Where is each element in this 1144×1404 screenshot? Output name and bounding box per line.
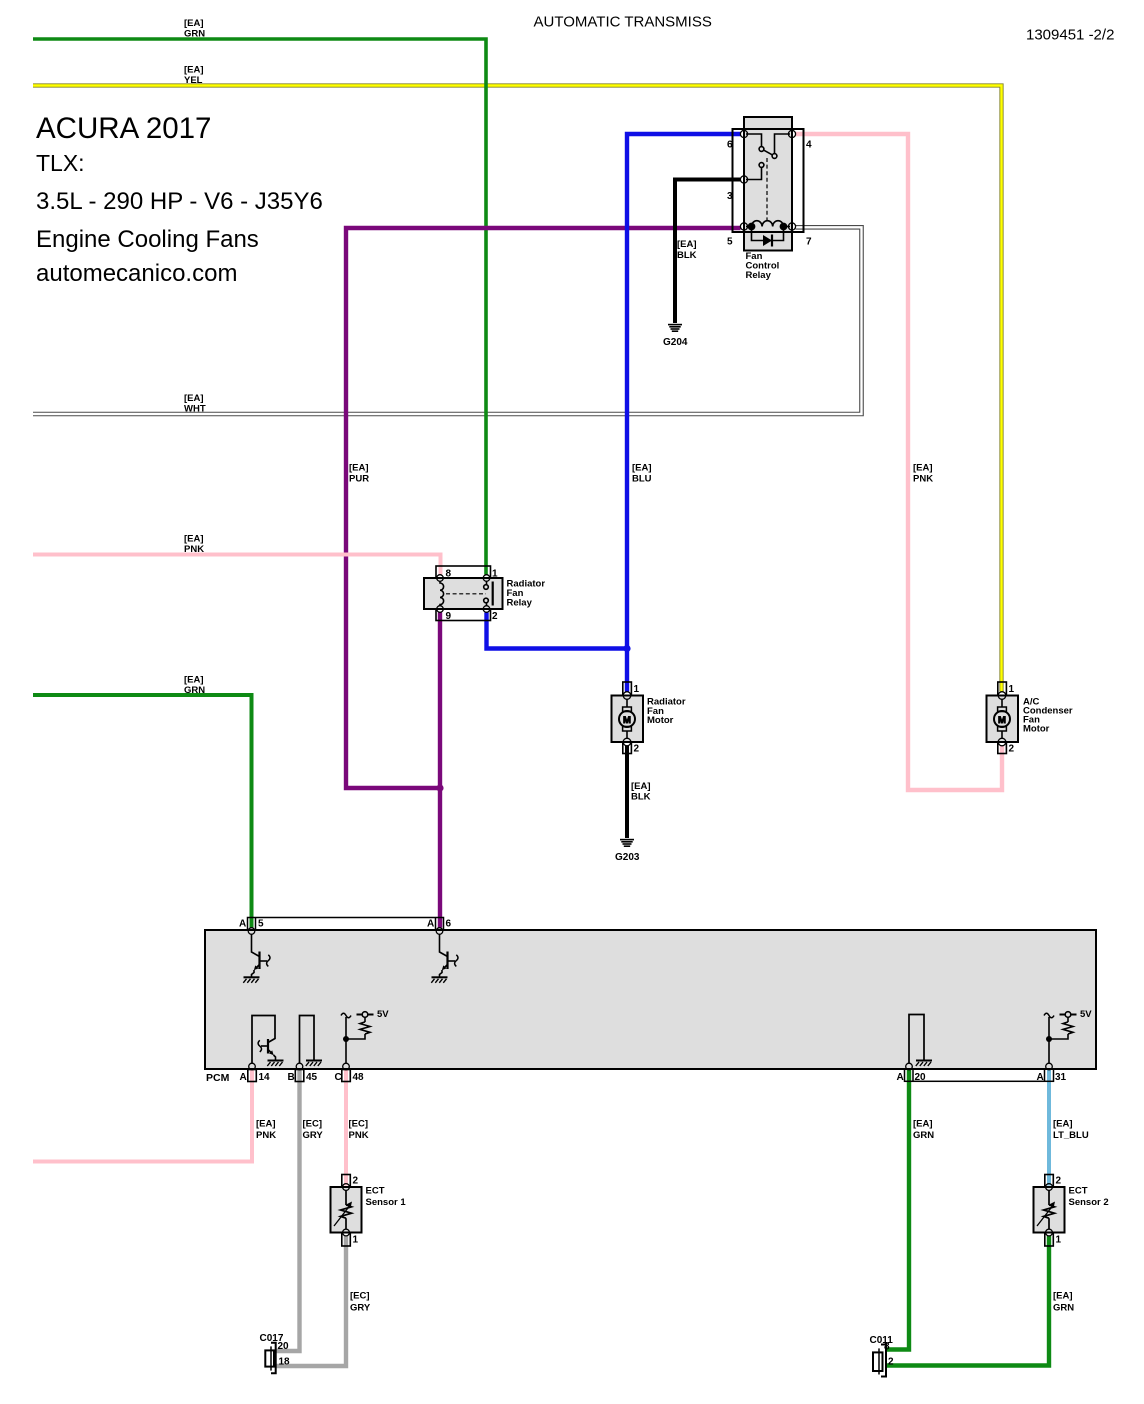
PCM pin B45 circle	[296, 1063, 303, 1070]
svg-text:A: A	[1037, 1072, 1044, 1083]
svg-text:[EC]: [EC]	[350, 1291, 370, 1302]
svg-text:[EA]: [EA]	[631, 781, 651, 792]
radiator fan relay top connector strip	[436, 566, 491, 578]
svg-text:ECT: ECT	[1069, 1186, 1088, 1197]
ground G204	[668, 325, 682, 332]
PCM pin A6 circle	[436, 928, 443, 935]
svg-text:[EA]: [EA]	[1053, 1119, 1073, 1130]
svg-text:1: 1	[1009, 684, 1015, 695]
wire [EA] BLK fan control relay pin 3 to ground G204	[675, 180, 741, 324]
A/C condenser fan motor pin 1 connector	[998, 682, 1007, 696]
svg-text:BLK: BLK	[677, 250, 697, 261]
svg-text:1: 1	[492, 569, 498, 580]
svg-text:[EA]: [EA]	[184, 65, 204, 76]
svg-text:[EA]: [EA]	[913, 1119, 933, 1130]
svg-text:5: 5	[258, 919, 264, 930]
svg-text:automecanico.com: automecanico.com	[36, 260, 237, 287]
ECT sensor 1 pin 2 connector	[342, 1175, 351, 1188]
svg-text:3: 3	[727, 191, 733, 202]
svg-text:[EA]: [EA]	[184, 534, 204, 545]
svg-text:1309451 -2/2: 1309451 -2/2	[1026, 27, 1114, 44]
BOXES	[205, 117, 1096, 1377]
PCM pin C48 connector	[342, 1070, 351, 1082]
wire [EA] GRN middle-left to PCM pin A5	[33, 695, 252, 928]
transistor at PCM pin A5	[243, 934, 270, 983]
PCM bottom connector strip pins A20 A31	[905, 1069, 1054, 1081]
radiator fan relay dashed link	[446, 593, 486, 595]
PCM pin A31 circle	[1046, 1063, 1053, 1070]
svg-text:ECT: ECT	[366, 1186, 385, 1197]
svg-text:PUR: PUR	[349, 474, 369, 485]
wire [EA] PNK from PCM pin A14 to left edge	[33, 1070, 252, 1162]
svg-text:PNK: PNK	[184, 544, 204, 555]
svg-text:PNK: PNK	[349, 1130, 369, 1141]
svg-text:7: 7	[806, 237, 812, 248]
svg-text:PCM: PCM	[206, 1072, 230, 1084]
svg-text:[EC]: [EC]	[349, 1119, 369, 1130]
svg-text:[EA]: [EA]	[632, 463, 652, 474]
PCM pin C48 circle	[343, 1063, 350, 1070]
svg-text:BLU: BLU	[632, 474, 652, 485]
ground G203	[620, 840, 634, 847]
wire [EC] PNK from PCM pin C48 to ECT sensor 1 pin 2	[344, 1070, 348, 1186]
svg-text:Relay: Relay	[507, 598, 533, 609]
svg-text:20: 20	[278, 1341, 290, 1352]
A/C condenser fan motor pin 2 connector	[998, 742, 1007, 754]
svg-text:[EA]: [EA]	[256, 1119, 276, 1130]
svg-text:Motor: Motor	[1023, 724, 1050, 735]
connector C017	[265, 1343, 275, 1374]
internal ground at PCM pin B45	[300, 1016, 323, 1067]
wire [EC] GRY from ECT sensor 1 pin 1 to connector C017 pin 18	[276, 1236, 346, 1366]
svg-text:A: A	[427, 919, 434, 930]
ECT sensor 1 pin 1 connector	[342, 1233, 351, 1247]
svg-text:48: 48	[353, 1072, 365, 1083]
svg-text:GRY: GRY	[350, 1302, 371, 1313]
ECT sensor 2 pin 1 connector	[1045, 1233, 1054, 1247]
wire [EA] YEL horizontal+vertical to A/C condenser fan motor pin 1	[33, 86, 1002, 692]
svg-text:Sensor 1: Sensor 1	[366, 1197, 407, 1208]
svg-text:M: M	[998, 715, 1006, 726]
wire [EA] WHT from fan control relay pin 7	[33, 227, 862, 414]
radiator fan motor body	[612, 696, 644, 743]
radiator fan motor symbol	[619, 692, 635, 746]
radiator fan motor pin 1 connector	[623, 682, 632, 696]
svg-text:PNK: PNK	[913, 474, 933, 485]
fan control relay coil	[746, 221, 790, 230]
svg-text:[EA]: [EA]	[184, 675, 204, 686]
svg-text:6: 6	[446, 919, 452, 930]
svg-text:M: M	[623, 715, 631, 726]
PCM pin A14 connector	[248, 1070, 256, 1082]
svg-text:[EA]: [EA]	[349, 463, 369, 474]
radiator fan relay pin circles 8 1 9 2	[437, 575, 490, 613]
svg-text:5V: 5V	[377, 1009, 389, 1020]
A/C condenser fan motor symbol	[994, 692, 1010, 746]
svg-text:2: 2	[888, 1357, 894, 1368]
svg-text:1: 1	[353, 1235, 359, 1246]
svg-text:[EC]: [EC]	[303, 1119, 323, 1130]
svg-text:[EA]: [EA]	[184, 393, 204, 404]
radiator fan motor pin 2 connector	[623, 742, 632, 754]
transistor at PCM pin A6	[431, 934, 458, 983]
svg-text:G203: G203	[615, 852, 640, 863]
svg-text:GRN: GRN	[913, 1130, 934, 1141]
svg-text:Sensor 2: Sensor 2	[1069, 1197, 1109, 1208]
svg-text:LT_BLU: LT_BLU	[1053, 1130, 1089, 1141]
PCM box	[205, 930, 1096, 1069]
svg-text:TLX:: TLX:	[36, 150, 85, 176]
radiator fan relay switch	[484, 581, 493, 605]
svg-text:GRN: GRN	[184, 685, 205, 696]
svg-text:9: 9	[446, 611, 452, 622]
wire [EA] GRN from ECT sensor 2 pin 1 to connector C011 pin 2	[886, 1236, 1049, 1366]
svg-text:A: A	[897, 1072, 904, 1083]
svg-text:GRY: GRY	[303, 1130, 324, 1141]
wire [EA] PNK fan control relay pin 4 to A/C condenser fan motor pin 2	[796, 134, 1003, 790]
svg-text:[EA]: [EA]	[913, 463, 933, 474]
5V pull-up at PCM pin A31	[1044, 1012, 1077, 1064]
wire [EA] BLU radiator fan relay pin 2 to fan control relay pin 6 and radiator fan motor pin 1	[487, 134, 741, 692]
PCM pin A5 circle	[248, 928, 255, 935]
svg-text:14: 14	[259, 1072, 271, 1083]
svg-text:5: 5	[727, 237, 733, 248]
fan control relay body	[744, 117, 792, 251]
svg-text:BLK: BLK	[631, 792, 651, 803]
svg-text:2: 2	[1009, 744, 1015, 755]
svg-text:45: 45	[306, 1072, 318, 1083]
wire [EA] GRN top to radiator fan relay pin 1	[33, 39, 486, 575]
GROUNDS	[620, 325, 682, 847]
wire [EA] PNK middle-left to radiator fan relay pin 8	[33, 555, 441, 575]
fan control relay switch contacts	[746, 134, 790, 180]
svg-text:6: 6	[727, 140, 733, 151]
ECT sensor 2 body	[1034, 1187, 1065, 1233]
svg-text:B: B	[288, 1072, 295, 1083]
svg-text:Engine Cooling Fans: Engine Cooling Fans	[36, 226, 259, 253]
PCM pin A14 circle	[249, 1063, 256, 1070]
internal ground at PCM pin A20	[909, 1015, 932, 1067]
radiator fan relay body	[424, 578, 503, 609]
TEXTS-HEADER	[36, 14, 1114, 288]
fan control relay connector outline	[733, 129, 804, 232]
svg-text:GRN: GRN	[1053, 1302, 1074, 1313]
radiator fan relay bottom connector strip	[436, 609, 491, 621]
ECT sensor 2 pin 2 connector	[1045, 1175, 1054, 1188]
svg-text:C011: C011	[870, 1335, 894, 1346]
wire [EA] GRN from PCM pin A20 to connector C011 pin 8	[886, 1070, 909, 1350]
INTERNALS	[243, 130, 1092, 1236]
PCM pin A20 circle	[906, 1063, 913, 1070]
svg-text:31: 31	[1055, 1072, 1067, 1083]
svg-text:A: A	[240, 1072, 247, 1083]
svg-text:AUTOMATIC TRANSMISS: AUTOMATIC TRANSMISS	[534, 14, 712, 31]
fan control relay pin circles 6 4 3 5 7	[740, 130, 795, 230]
wire [EA] BLK radiator fan motor pin 2 to ground G203	[625, 746, 629, 838]
svg-text:G204: G204	[663, 337, 688, 348]
PCM pin B45 connector	[295, 1070, 304, 1082]
svg-text:ACURA 2017: ACURA 2017	[36, 112, 211, 145]
svg-text:PNK: PNK	[256, 1130, 276, 1141]
svg-text:2: 2	[492, 611, 498, 622]
svg-text:18: 18	[279, 1357, 291, 1368]
svg-text:8: 8	[446, 569, 452, 580]
svg-text:[EA]: [EA]	[184, 18, 204, 29]
wire [EA] LT_BLU from PCM pin A31 to ECT sensor 2 pin 2	[1047, 1070, 1051, 1186]
svg-text:4: 4	[806, 140, 812, 151]
ECT sensor 2 thermistor	[1037, 1184, 1055, 1236]
svg-text:YEL: YEL	[184, 75, 203, 86]
svg-text:2: 2	[353, 1176, 359, 1187]
svg-text:20: 20	[915, 1072, 927, 1083]
transistor at PCM pin A14	[252, 1016, 284, 1067]
svg-text:A: A	[239, 919, 246, 930]
svg-text:[EA]: [EA]	[1053, 1291, 1073, 1302]
svg-text:C: C	[335, 1072, 342, 1083]
wire [EC] GRY from PCM pin B45 to connector C017 pin 20	[276, 1070, 300, 1351]
svg-text:3.5L - 290 HP - V6 - J35Y6: 3.5L - 290 HP - V6 - J35Y6	[36, 188, 323, 215]
svg-text:Relay: Relay	[746, 270, 772, 281]
fan control relay armature dashed link	[766, 158, 768, 221]
svg-text:1: 1	[634, 684, 640, 695]
svg-text:GRN: GRN	[184, 29, 205, 40]
svg-text:1: 1	[1056, 1235, 1062, 1246]
svg-text:8: 8	[884, 1342, 890, 1353]
A/C condenser fan motor body	[987, 696, 1019, 743]
PCM top connector strip pins A5 A6	[248, 918, 444, 931]
fan control relay diode	[752, 227, 784, 247]
ECT sensor 1 thermistor	[334, 1184, 352, 1236]
svg-text:2: 2	[634, 744, 640, 755]
5V pull-up at PCM pin C48	[341, 1012, 374, 1064]
radiator fan relay coil	[440, 581, 444, 605]
svg-text:2: 2	[1056, 1176, 1062, 1187]
svg-text:[EA]: [EA]	[677, 239, 697, 250]
svg-text:WHT: WHT	[184, 404, 206, 415]
wire [EA] PUR fan control relay pin 5 to radiator fan relay pin 9 and PCM pin A6	[346, 228, 741, 928]
svg-text:Motor: Motor	[647, 715, 674, 726]
connector C011	[873, 1345, 886, 1377]
svg-text:5V: 5V	[1080, 1009, 1092, 1020]
ECT sensor 1 body	[331, 1187, 362, 1233]
